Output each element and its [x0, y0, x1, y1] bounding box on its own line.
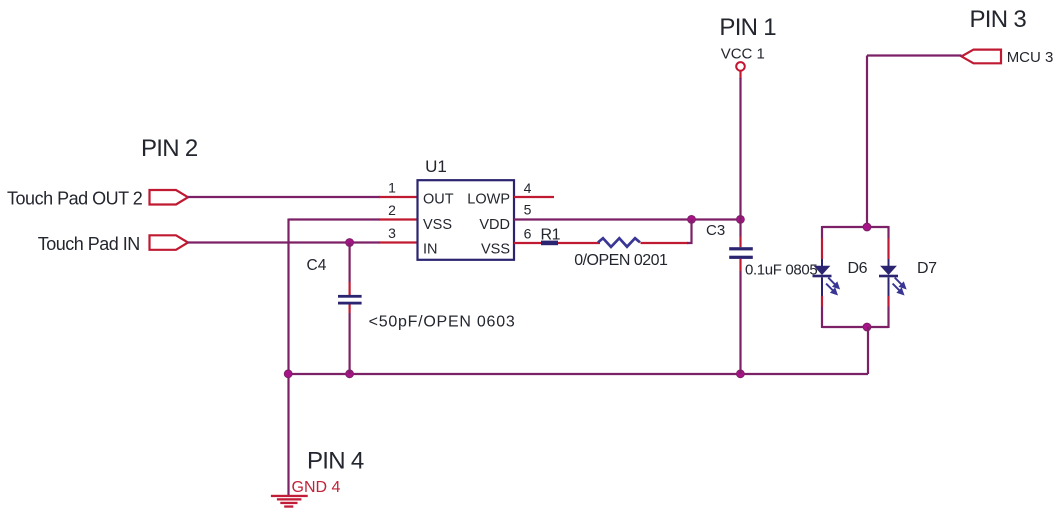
wire D7 bottom [887, 307, 889, 329]
svg-text:PIN 2: PIN 2 [141, 135, 198, 162]
connector Touch Pad OUT 2 [150, 190, 189, 205]
wire MCU3 vertical to LED top [866, 56, 868, 228]
diode D7 cathode pin stub [887, 296, 889, 307]
ground symbol [271, 495, 308, 508]
wire R1 lead right [641, 242, 689, 244]
svg-text:VDD: VDD [479, 217, 510, 233]
junction dot IN/C4 [346, 239, 354, 247]
wire OUT2 to U1 pin1 [188, 196, 380, 198]
svg-text:U1: U1 [425, 157, 447, 176]
junction dot VDD/VCC [737, 216, 745, 224]
svg-text:0/OPEN 0201: 0/OPEN 0201 [574, 252, 668, 269]
wire LED bottom to bus [867, 327, 869, 374]
svg-text:4: 4 [524, 180, 532, 196]
pin 2 stub [379, 218, 417, 220]
wire MCU3 horizontal [867, 54, 962, 56]
wire R1 elbow up [687, 220, 692, 244]
wire C4 bottom to bus [349, 313, 351, 374]
wire D6 bottom [821, 307, 823, 329]
diode D6 anode lead [821, 259, 823, 266]
LED bottom wire [822, 326, 889, 328]
svg-text:C4: C4 [307, 257, 327, 274]
junction dot bus VCC [737, 370, 745, 378]
svg-text:LOWP: LOWP [467, 192, 510, 208]
svg-text:IN: IN [423, 242, 438, 258]
svg-text:PIN 3: PIN 3 [970, 6, 1027, 33]
svg-text:C3: C3 [706, 222, 725, 239]
VCC terminal circle [736, 62, 745, 71]
wire D6 top [821, 226, 823, 239]
diode D7 triangle [880, 266, 897, 275]
svg-text:VSS: VSS [423, 217, 452, 233]
LED D6 arrows [826, 278, 839, 294]
resistor R1 zigzag [598, 238, 640, 247]
diode D7 anode lead [888, 259, 890, 266]
capacitor C3 plate upper [729, 247, 753, 250]
pin 4 stub LOWP [514, 196, 554, 198]
wire VSS vertical down to bus [287, 219, 289, 375]
junction dot LED top [863, 223, 871, 231]
wire VDD pin5 to VCC [514, 218, 741, 220]
connector Touch Pad IN [150, 235, 189, 250]
capacitor C3 stub upper [739, 237, 741, 248]
svg-text:VSS: VSS [481, 242, 510, 258]
diode D7 cathode bar [879, 275, 898, 278]
diode D6 anode pin stub [821, 239, 823, 260]
wire IN to U1 pin3 [188, 241, 380, 243]
capacitor C3 stub lower [739, 259, 741, 271]
svg-text:0.1uF 0805: 0.1uF 0805 [745, 262, 817, 279]
IC U1 body [418, 180, 515, 260]
wire VCC down to C3 [739, 78, 741, 237]
svg-text:D7: D7 [917, 260, 937, 277]
svg-text:OUT: OUT [423, 192, 454, 208]
capacitor C4 pin stub lower [349, 305, 351, 314]
junction dot bus left [284, 370, 292, 378]
capacitor C4 plate upper [338, 295, 362, 298]
svg-text:1: 1 [388, 180, 396, 196]
LED top wire [822, 226, 889, 228]
pin 1 stub [379, 196, 417, 198]
diode D6 cathode lead [821, 277, 823, 296]
wire VSS pin2 horizontal [289, 218, 381, 220]
svg-text:<50pF/OPEN 0603: <50pF/OPEN 0603 [369, 313, 516, 330]
svg-text:D6: D6 [848, 260, 868, 277]
svg-text:R1: R1 [541, 226, 561, 243]
svg-text:5: 5 [524, 202, 532, 218]
diode D7 anode pin stub [887, 239, 889, 260]
diode D6 cathode pin stub [821, 296, 823, 307]
diode D6 cathode bar [813, 275, 832, 278]
capacitor C4 plate lower [338, 302, 362, 305]
connector MCU 3 [962, 50, 1002, 64]
pin 3 stub [379, 241, 417, 243]
svg-text:Touch Pad OUT 2: Touch Pad OUT 2 [7, 189, 143, 209]
wire C3 down to bus [739, 271, 741, 374]
diode D7 cathode lead [888, 277, 890, 296]
svg-text:MCU 3: MCU 3 [1007, 49, 1054, 66]
svg-text:PIN 1: PIN 1 [719, 14, 776, 41]
svg-text:3: 3 [388, 225, 396, 241]
svg-text:6: 6 [524, 225, 532, 241]
svg-text:VCC 1: VCC 1 [721, 46, 765, 63]
VCC stub [739, 71, 741, 79]
capacitor C3 plate lower [729, 256, 753, 259]
bottom bus wire [289, 373, 869, 375]
svg-text:2: 2 [388, 202, 396, 218]
LED D7 arrows [893, 278, 906, 294]
resistor R1 body rect [541, 241, 558, 246]
svg-text:GND 4: GND 4 [292, 479, 341, 496]
svg-text:Touch Pad IN: Touch Pad IN [38, 234, 140, 254]
capacitor C4 pin stub upper [349, 282, 351, 295]
wire C4 top [349, 243, 351, 283]
wire R1 lead left [558, 242, 600, 244]
junction dot bus C4 [346, 370, 354, 378]
junction dot LED bottom [863, 323, 871, 331]
svg-text:PIN 4: PIN 4 [307, 448, 364, 475]
wire D7 top [887, 226, 889, 239]
diode D6 triangle [814, 266, 831, 275]
pin 6 stub [514, 242, 541, 244]
wire bus to ground [287, 374, 289, 496]
junction dot VDD/R1 [688, 216, 696, 224]
